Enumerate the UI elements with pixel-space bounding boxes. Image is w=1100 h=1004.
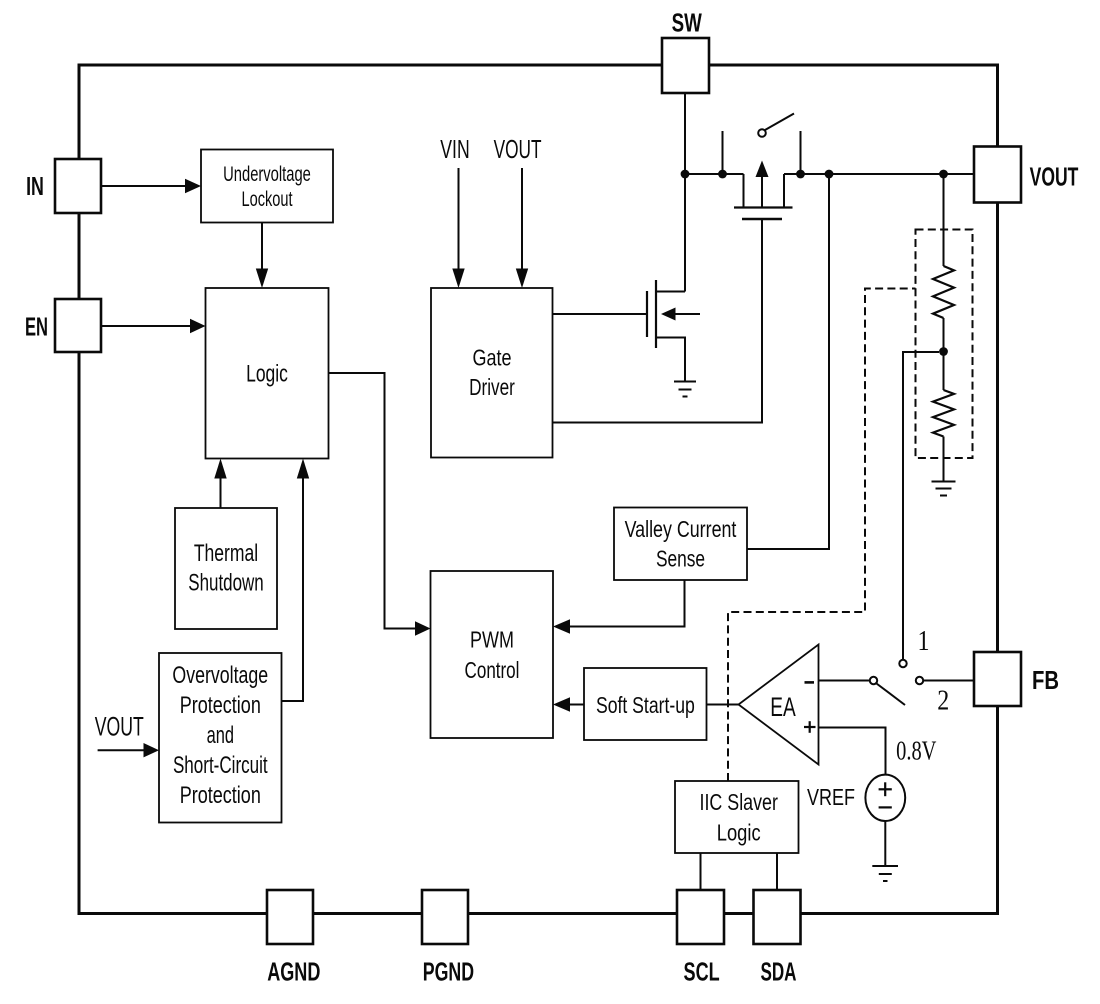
pin IN [55, 159, 101, 213]
block Undervoltage Lockout [201, 150, 333, 223]
wire divider tap to contact 1 [903, 352, 939, 660]
pin VOUT [974, 147, 1021, 203]
wire stub left of switch [722, 131, 724, 174]
dashed box around feedback divider [916, 230, 973, 459]
wire Overvoltage block to Logic [282, 478, 304, 702]
svg-text:Overvoltage: Overvoltage [172, 662, 268, 689]
arrowhead into Overvoltage from VOUT [144, 743, 160, 757]
junction dot rail E [939, 170, 948, 179]
pin PGND [422, 890, 468, 944]
svg-text:EN: EN [25, 312, 48, 342]
arrowhead into PWM from Soft Start-up [553, 697, 570, 711]
NMOS body arrow [661, 308, 676, 321]
wire Soft Start-up to PWM Control [570, 704, 584, 706]
svg-text:AGND: AGND [267, 957, 320, 987]
pin SDA [754, 890, 801, 944]
svg-text:Driver: Driver [469, 374, 515, 400]
arrowhead VIN into Gate Driver [452, 269, 464, 289]
pin FB [974, 652, 1021, 706]
svg-text:Shutdown: Shutdown [188, 569, 263, 596]
wire SW rail right segment to VOUT pin [784, 173, 974, 175]
wire EA output to Soft Start-up [707, 704, 739, 706]
wire Logic to PWM Control [329, 373, 416, 629]
svg-text:VOUT: VOUT [494, 134, 542, 164]
wire switch contact 2 to FB pin [924, 680, 975, 682]
svg-text:2: 2 [937, 685, 949, 716]
junction dot divider tap [939, 347, 948, 356]
wire stub right of switch [800, 131, 802, 174]
svg-text:Protection: Protection [180, 692, 261, 719]
svg-text:SDA: SDA [761, 957, 797, 987]
junction dot rail C [796, 170, 805, 179]
wire VOUT arrow into Overvoltage block [98, 749, 144, 751]
wire EA inverting input to switch wiper [819, 680, 870, 682]
resistor R1 [933, 266, 954, 318]
svg-text:VOUT: VOUT [95, 712, 144, 742]
svg-text:Soft Start-up: Soft Start-up [596, 692, 695, 718]
block Thermal Shutdown [175, 508, 277, 629]
pin AGND [267, 890, 313, 944]
svg-text:SW: SW [672, 7, 703, 37]
VREF source [865, 775, 905, 821]
wire VOUT into Gate Driver [521, 168, 523, 270]
block Logic [206, 288, 329, 459]
EA plus sign [804, 721, 816, 733]
svg-text:and: and [207, 722, 234, 749]
feedback selector switch contact 2 [916, 677, 923, 684]
arrowhead into Logic from Thermal [214, 459, 226, 479]
arrowhead into Logic from UVL [256, 269, 268, 289]
wire EN to Logic [101, 325, 190, 327]
svg-text:0.8V: 0.8V [896, 736, 937, 766]
block Valley Current Sense [614, 508, 747, 581]
arrowhead into PWM from Valley Current Sense [553, 619, 570, 633]
svg-text:IN: IN [26, 171, 44, 201]
arrowhead into Logic from Overvoltage [297, 459, 309, 479]
svg-text:Short-Circuit: Short-Circuit [173, 752, 268, 779]
arrowhead into PWM from Logic [415, 621, 431, 635]
svg-text:EA: EA [770, 692, 796, 722]
wire IN to Undervoltage Lockout [101, 185, 185, 187]
svg-text:IIC Slaver: IIC Slaver [700, 789, 779, 815]
wire Valley Current Sense to PWM Control [570, 580, 685, 627]
svg-text:PWM: PWM [470, 626, 514, 652]
wire SW pin down to rail and NMOS drain [684, 93, 686, 292]
NMOS power transistor Q1 [647, 280, 700, 381]
wire divider bottom to ground [943, 437, 945, 482]
wire IIC Slaver Logic to SCL pin [700, 853, 702, 890]
wire VIN into Gate Driver [458, 168, 460, 270]
svg-text:Valley Current: Valley Current [625, 516, 737, 542]
svg-text:Sense: Sense [656, 546, 705, 572]
block Soft Start-up [584, 668, 707, 740]
svg-text:Control: Control [465, 657, 520, 683]
block IIC Slaver Logic [675, 781, 799, 853]
svg-text:VIN: VIN [440, 134, 469, 164]
wire between resistors lower [943, 356, 945, 390]
svg-text:PGND: PGND [423, 957, 474, 987]
pin EN [55, 299, 101, 352]
arrowhead into UVL [185, 179, 201, 193]
block Overvoltage and Short-Circuit Protection [159, 653, 282, 823]
EA minus sign [805, 681, 815, 684]
feedback selector switch contact 1 [899, 660, 906, 667]
wire Gate Driver to pass-gate [553, 219, 763, 423]
wire rail to Valley Current Sense [747, 174, 829, 549]
wire divider top from rail [943, 174, 945, 266]
pass transistor arrow [761, 175, 763, 208]
block Gate Driver [431, 288, 553, 458]
svg-text:Protection: Protection [180, 782, 261, 809]
wire IIC Slaver Logic to SDA pin [776, 853, 778, 890]
svg-text:Gate: Gate [473, 345, 512, 371]
svg-text:FB: FB [1032, 665, 1059, 695]
wire Thermal Shutdown to Logic [220, 478, 222, 509]
wire Gate Driver to NMOS gate [553, 313, 648, 315]
arrowhead into Logic from EN [190, 319, 206, 333]
pin SCL [677, 890, 724, 944]
wire SW rail left segment [685, 173, 744, 175]
wire UVL to Logic [261, 223, 263, 270]
switch S1 above pass transistor [758, 129, 766, 137]
svg-text:VREF: VREF [807, 784, 855, 810]
svg-text:Logic: Logic [246, 361, 288, 388]
svg-text:1: 1 [918, 626, 930, 657]
svg-text:Lockout: Lockout [242, 188, 293, 211]
chip outer border [79, 65, 998, 914]
svg-text:Undervoltage: Undervoltage [223, 163, 311, 186]
dashed control net IIC to divider [728, 289, 916, 782]
ground under NMOS [674, 382, 696, 397]
block PWM Control [431, 571, 554, 738]
ground under VREF [872, 866, 898, 881]
resistor R2 [933, 390, 954, 436]
svg-text:Logic: Logic [717, 820, 761, 846]
svg-text:SCL: SCL [684, 957, 720, 987]
junction dot rail B [718, 170, 727, 179]
svg-text:Thermal: Thermal [194, 540, 258, 567]
pass transistor Q2 plates [734, 208, 793, 220]
pin SW [662, 38, 709, 93]
arrowhead VOUT into Gate Driver [516, 269, 528, 289]
op-amp EA [739, 645, 819, 765]
junction dot rail D [825, 170, 834, 179]
wire between resistors upper [943, 318, 945, 356]
wire pass-gate left leg [743, 174, 745, 208]
ground under divider [932, 482, 956, 496]
feedback selector wiper [870, 677, 877, 684]
wire pass-gate right leg [783, 174, 785, 208]
junction dot rail A [681, 170, 690, 179]
wire EA noninverting input to VREF [819, 728, 886, 776]
wire VREF to ground [884, 821, 886, 866]
svg-text:VOUT: VOUT [1030, 162, 1079, 192]
